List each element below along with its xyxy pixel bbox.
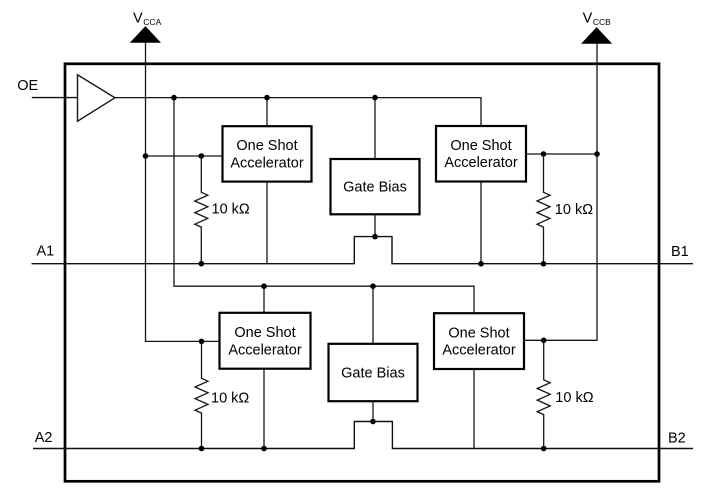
Vcca power symbol [131, 27, 160, 42]
A2-B2 line with pass transistor Q2 channel bump [33, 422, 693, 449]
wire gate bias 2 to pass gate [372, 401, 374, 421]
Vcca label [133, 11, 162, 27]
svg-text:One Shot: One Shot [236, 138, 297, 154]
OE output wire to right one-shot [115, 98, 481, 126]
junction ch2 rail to gate bias [370, 283, 376, 289]
junction R3 bottom on A2 [199, 446, 205, 452]
Vccb power symbol [582, 28, 611, 43]
svg-text:CCA: CCA [143, 17, 161, 27]
junction [372, 95, 378, 101]
junction resistor R1 top [199, 153, 205, 159]
junction ch2 rail to one-shot left [261, 283, 267, 289]
svg-text:B2: B2 [668, 431, 686, 447]
junction on Vcca rail [143, 153, 149, 159]
svg-text:10 kΩ: 10 kΩ [211, 390, 249, 406]
resistor R2 [537, 154, 550, 264]
one shot accelerator U7 (ch2 right) [434, 313, 524, 369]
vcc line to one-shot 1 left [146, 155, 223, 157]
one shot accelerator U5 (ch2 left) [220, 313, 311, 369]
svg-text:A1: A1 [36, 244, 54, 260]
chip body outline [65, 64, 659, 482]
one shot accelerator U2 (ch1 left) [223, 126, 312, 181]
junction R2 top [541, 151, 547, 157]
svg-text:V: V [133, 11, 143, 27]
svg-text:Accelerator: Accelerator [228, 342, 302, 358]
svg-text:Gate Bias: Gate Bias [341, 365, 405, 381]
svg-text:OE: OE [17, 78, 38, 94]
Vccb rail wire [524, 43, 597, 340]
svg-text:One Shot: One Shot [448, 325, 509, 341]
junction R1 bottom on A1 [199, 261, 205, 267]
svg-text:10 kΩ: 10 kΩ [555, 202, 593, 218]
Vccb label [583, 11, 612, 27]
svg-text:10 kΩ: 10 kΩ [212, 201, 250, 217]
wire one-shot ch2 left output to A2 [263, 369, 265, 449]
wire one-shot ch1 right output to B1 [480, 182, 482, 264]
svg-text:B1: B1 [671, 244, 689, 260]
junction R2 bottom on B1 [541, 261, 547, 267]
svg-text:Accelerator: Accelerator [444, 155, 518, 171]
one shot accelerator U4 (ch1 right) [436, 126, 526, 182]
junction R4 bottom on B2 [541, 446, 547, 452]
svg-text:V: V [583, 11, 593, 27]
svg-text:Accelerator: Accelerator [230, 155, 304, 171]
junction R4 top [541, 338, 547, 344]
OE input wire [32, 97, 78, 99]
svg-text:A2: A2 [35, 430, 53, 446]
OE branch wire to channel2 rail [174, 98, 474, 313]
junction one-shot ch1 right output on B1 [478, 261, 484, 267]
resistor R1 [195, 156, 208, 264]
junction [264, 95, 270, 101]
wire ch2 rail to one-shot 2 left top [263, 286, 265, 313]
junction gate 2 [370, 419, 376, 425]
svg-text:CCB: CCB [593, 17, 611, 27]
resistor R3 [195, 341, 208, 448]
wire one-shot ch2 right output to B2 [473, 369, 475, 449]
wire OE to one-shot 1 top [266, 98, 268, 126]
wire one-shot ch1 right to Vccb rail [526, 153, 597, 155]
buffer U1 [78, 75, 115, 121]
svg-text:Accelerator: Accelerator [442, 343, 516, 359]
junction on Vccb rail [594, 151, 600, 157]
junction OE-branch [171, 95, 177, 101]
A1-B1 line with pass transistor Q1 channel bump [32, 237, 694, 264]
svg-text:Gate Bias: Gate Bias [343, 179, 407, 195]
gate bias U3 (ch1) [331, 159, 420, 214]
junction gate 1 [372, 234, 378, 240]
resistor R4 [537, 340, 550, 448]
junction one-shot ch2 left output on A2 [261, 446, 267, 452]
svg-text:10 kΩ: 10 kΩ [555, 390, 593, 406]
wire ch2 rail to gate bias 2 top [372, 286, 374, 344]
svg-text:One Shot: One Shot [234, 325, 295, 341]
gate bias U6 (ch2) [329, 344, 418, 401]
wire gate bias 1 to pass gate [374, 214, 376, 236]
wire OE to gate bias 1 top [374, 98, 376, 159]
svg-text:One Shot: One Shot [450, 138, 511, 154]
wire one-shot1 output to A1 [266, 182, 268, 264]
Vcca rail wire [146, 42, 220, 341]
junction R3 top on Vcca rail [199, 339, 205, 345]
